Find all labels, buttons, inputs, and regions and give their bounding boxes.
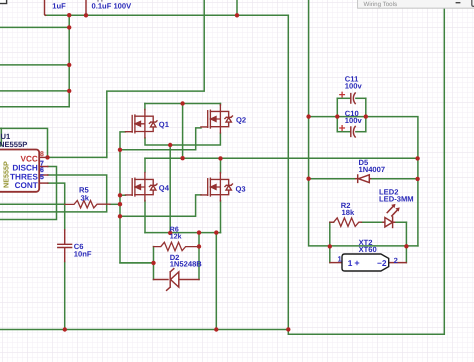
wire gnd drop x216.3	[215, 233, 217, 330]
junction (120,149.8)	[118, 148, 122, 152]
svg-text:12k: 12k	[170, 233, 182, 241]
junction (199,232.6)	[197, 230, 201, 234]
svg-text:Q2: Q2	[236, 115, 246, 124]
svg-text:NE555P: NE555P	[0, 140, 27, 149]
wire q1 drain riser	[144, 104, 146, 110]
wire gate bus x120	[120, 132, 154, 263]
junction (69,15.2)	[67, 13, 71, 17]
resistor R6	[154, 242, 200, 250]
wire sources drop x170	[169, 145, 171, 233]
svg-text:18k: 18k	[342, 208, 355, 217]
wire c11 c10 right leg	[365, 98, 367, 131]
svg-text:8: 8	[40, 151, 44, 158]
svg-text:5: 5	[40, 174, 44, 181]
junction (153.5,262.9)	[151, 261, 155, 265]
svg-text:6: 6	[40, 167, 44, 174]
wire q3 gate link y216.2	[120, 195, 201, 216]
wire top vertical x237	[236, 0, 238, 15]
junction (417.6,178.9)	[415, 177, 419, 181]
wire pin8 to riser y157.5	[48, 156, 107, 158]
junction (182.6,158.2)	[180, 156, 184, 160]
wire u1 pin5 route	[48, 183, 65, 230]
wire far right vertical x444	[288, 0, 444, 334]
resistor R2	[330, 218, 362, 227]
capacitor C6	[58, 230, 72, 262]
wire u1 pin6 route	[0, 175, 107, 212]
wire r5 right to gate bus	[110, 203, 120, 205]
junction (182.6,103.5)	[180, 101, 184, 105]
wire q3 drain drop x220.5	[220, 158, 222, 172]
wire d2 left link y262.9	[120, 262, 154, 264]
svg-text:LED-3MM: LED-3MM	[379, 195, 414, 204]
svg-text:Q4: Q4	[159, 183, 170, 192]
panel close icon (cut)	[472, 0, 474, 6]
Wiring Tools floating panel	[358, 0, 474, 8]
svg-text:DISCH: DISCH	[12, 164, 38, 173]
wire u1 left stub x1.3	[0, 128, 2, 145]
U1 NE555P body	[0, 150, 39, 192]
svg-text:100v: 100v	[345, 116, 363, 125]
wire right drop x288	[287, 15, 289, 329]
junction (120,204.2)	[118, 202, 122, 206]
junction (237,15.3)	[235, 13, 239, 17]
svg-text:+: +	[354, 258, 359, 268]
wire q1 q2 drain rail y103.5	[145, 103, 221, 105]
junction (288.3,329.4)	[286, 327, 290, 331]
wire left rail y64.9	[0, 64, 69, 66]
svg-text:THRES: THRES	[10, 172, 38, 181]
wire q4 drain drop x145	[144, 158, 146, 172]
svg-text:Q1: Q1	[159, 120, 170, 129]
svg-text:3k: 3k	[81, 194, 90, 203]
wire q3 source drop x220.5	[220, 201, 222, 233]
junction (417.6,158.4)	[415, 156, 419, 160]
junction (170.2,233)	[168, 231, 172, 235]
junction (170.2,145)	[168, 143, 172, 147]
wire c11 left lead	[337, 97, 350, 99]
capacitor lead C? 1uF top-left	[45, 0, 46, 15]
wire q4 gate stub	[120, 194, 126, 196]
junction (199,246.5)	[197, 244, 201, 248]
C11 plus sign	[340, 92, 345, 97]
wire r6 d2 left leg x153.5	[153, 247, 155, 280]
junction (64.8,329.5)	[63, 327, 67, 331]
wire bottom rail y329.5	[0, 329, 288, 331]
wire u1 pin7 route	[0, 167, 57, 220]
wire q1 q2 source rail y145	[145, 133, 220, 145]
U1 pin 6 lead	[39, 174, 48, 176]
U1 pin 8 lead	[39, 156, 47, 158]
wire main rail y158.2	[145, 157, 418, 159]
wire q2 drain riser	[219, 104, 221, 106]
top-left cut component box	[0, 0, 7, 4]
junction (406.4,246.3)	[404, 244, 408, 248]
wire c10 right lead	[356, 131, 366, 133]
transistor Q2	[201, 105, 233, 133]
svg-text:1uF: 1uF	[52, 1, 66, 10]
capacitor lead C? 0.1uF	[85, 0, 87, 14]
svg-text:CONT: CONT	[15, 181, 38, 190]
svg-text:−2: −2	[377, 258, 387, 268]
junction (308.6,116.6)	[306, 114, 310, 118]
transistor Q3	[201, 173, 233, 201]
wire r2 led line y222.2	[330, 221, 407, 223]
C10 plus sign	[340, 126, 345, 131]
diode D5 1N4007	[356, 175, 371, 182]
junction (216.3,329.5)	[214, 327, 218, 331]
junction (120,195.7)	[118, 193, 122, 197]
wire u1 pin8 feed y128.4	[0, 128, 48, 157]
wire c10 left lead	[337, 131, 350, 133]
svg-text:VCC: VCC	[21, 155, 38, 164]
wire left rail y106.8	[0, 106, 69, 108]
wire q2 gate link y149.5	[120, 128, 201, 150]
wire net VCC top horizontal y15	[45, 14, 288, 16]
svg-text:1: 1	[348, 258, 353, 268]
U1 pin 7 lead	[39, 166, 48, 168]
panel minimize icon	[456, 2, 461, 4]
wire d5 line y178.7	[309, 178, 418, 180]
XT2 pin 2 lead	[389, 262, 407, 264]
svg-text:0.1uF 100V: 0.1uF 100V	[92, 1, 133, 10]
wire xt2 right leg x406.4	[405, 222, 407, 262]
junction (216.3,232.6)	[214, 230, 218, 234]
junction (69,90.9)	[67, 89, 71, 93]
wire left rail y90.9	[0, 90, 69, 92]
U1 pin 5 lead	[39, 182, 48, 184]
svg-text:XT60: XT60	[359, 245, 377, 254]
XT2 pin 1 lead	[330, 262, 342, 264]
capacitor C11	[351, 93, 355, 104]
LED2 arrows	[387, 207, 397, 216]
junction (69,64.9)	[67, 63, 71, 67]
junction (120,216.3)	[118, 214, 122, 218]
svg-text:100v: 100v	[345, 82, 363, 91]
capacitor C10	[351, 126, 355, 137]
svg-text:2: 2	[394, 256, 398, 265]
wire xt2 left leg x329.8	[329, 222, 331, 262]
wire r6 d2 right leg x199	[198, 233, 200, 280]
junction (220.5,158.4)	[218, 156, 222, 160]
zener diode D2 1N5248B	[154, 279, 200, 281]
wire r5 left y204.3	[0, 203, 65, 205]
resistor R5	[65, 201, 110, 208]
junction (69,27.4)	[67, 25, 71, 29]
svg-text:Wiring Tools: Wiring Tools	[364, 1, 398, 8]
transistor Q1	[125, 109, 157, 137]
wire lower bridge rail y232.6	[145, 232, 221, 234]
svg-text:10nF: 10nF	[74, 250, 92, 259]
wire c11 c10 left leg	[336, 98, 338, 131]
tiny gray glyph remnants above 0.1uF	[98, 0, 102, 2]
junction (86,15.3)	[84, 13, 88, 17]
junction (47.5,157.4)	[45, 155, 49, 159]
wire q4 source drop x145	[144, 201, 146, 233]
wire c6 bottom lead	[64, 262, 66, 330]
junction (337.3,116.6)	[335, 114, 339, 118]
LED2 LED-3MM	[383, 221, 395, 223]
svg-text:1N5248B: 1N5248B	[170, 260, 203, 269]
svg-text:NE555P: NE555P	[2, 161, 11, 188]
wire left vertical x69	[68, 15, 70, 107]
wire vcc riser x106.8	[107, 0, 204, 158]
transistor Q4	[125, 173, 157, 201]
svg-text:Q3: Q3	[236, 185, 246, 194]
junction (365.8,116.6)	[364, 114, 368, 118]
wire drain rail to main rail x182.6	[182, 104, 184, 159]
wire c11 right lead	[356, 97, 366, 99]
wire rail x308.6	[309, 0, 418, 246]
connector XT2 XT60 body	[342, 254, 389, 271]
wire c10 c11 bus y116.6	[309, 117, 418, 246]
wire left rail y27.4	[0, 26, 69, 28]
junction (308.6,178.7)	[306, 177, 310, 181]
junction (329.8,246.4)	[328, 244, 332, 248]
svg-text:1N4007: 1N4007	[359, 165, 386, 174]
svg-text:R6: R6	[170, 226, 179, 233]
